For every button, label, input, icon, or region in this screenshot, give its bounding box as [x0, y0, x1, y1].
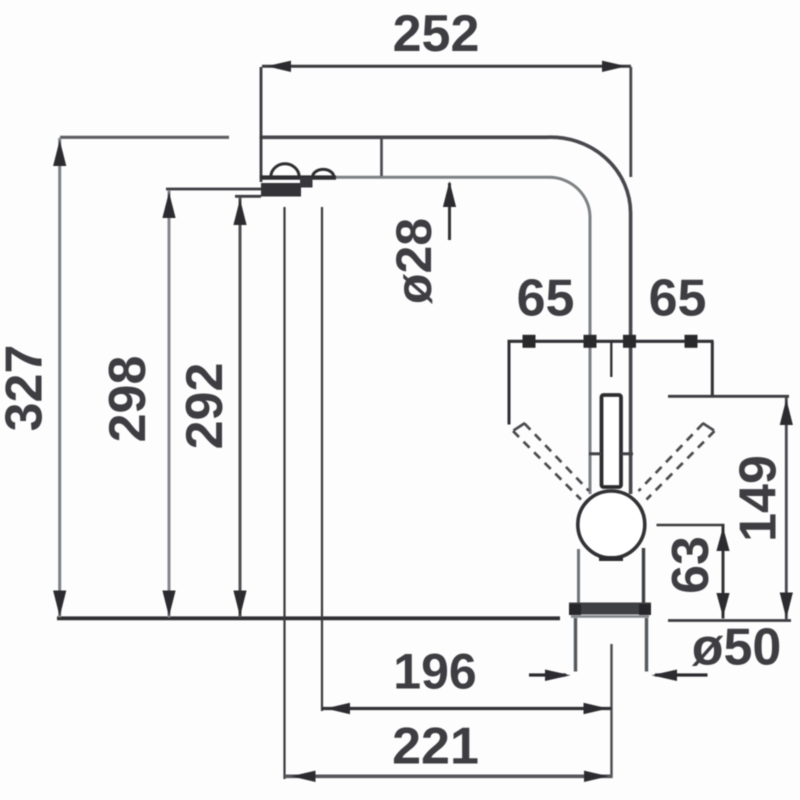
base band — [569, 603, 651, 615]
spray head big bump — [271, 164, 299, 177]
dimension 298 extension line — [166, 188, 261, 191]
dimension diameter 50 left arrow — [545, 670, 571, 682]
dimension 221 left extension line — [283, 207, 285, 779]
dimension 298 bottom arrow — [162, 591, 175, 617]
dimension 292 bottom arrow — [233, 591, 246, 617]
dimension 63 extension line — [657, 524, 725, 527]
base band dark end right — [639, 604, 651, 615]
spray head small bump — [313, 169, 334, 177]
dimension 65-65 tick 3 — [623, 335, 636, 348]
dimension 65-65 tick 2 — [584, 335, 597, 348]
dashed lever left outer line — [525, 424, 590, 492]
svg-text:292: 292 — [176, 363, 234, 450]
svg-text:196: 196 — [393, 644, 476, 700]
spout left end cap edge / 252 left extension line — [260, 67, 263, 182]
body wall left below circle — [577, 549, 580, 603]
handle lever (vertical position) — [602, 395, 622, 487]
dimension 149 line — [785, 397, 788, 620]
dimension 65-65 tick 4 — [685, 335, 698, 348]
counter line left segment — [57, 616, 560, 620]
dimension 252 right arrow — [602, 61, 627, 72]
dimension 196 left arrow — [326, 703, 351, 714]
dimension 327 bottom arrow — [53, 591, 66, 617]
svg-text:149: 149 — [730, 455, 788, 542]
shank wall right — [645, 618, 648, 672]
dimension 252 right extension line — [629, 67, 632, 177]
dimension 196 right arrow — [584, 703, 609, 714]
dimension diameter 28 arrow line — [448, 183, 451, 240]
svg-text:252: 252 — [393, 5, 480, 63]
svg-text:221: 221 — [392, 718, 479, 776]
ball joint circle — [578, 491, 645, 558]
dimension diameter 50 left leader line — [529, 673, 566, 676]
svg-text:65: 65 — [649, 270, 707, 328]
dimension 196 line — [322, 707, 611, 710]
body wall right below circle — [642, 548, 645, 603]
dashed lever right outer line — [639, 424, 704, 492]
counter line right segment — [668, 619, 791, 622]
dimension 221 line — [285, 774, 613, 778]
handle center tick — [610, 342, 612, 378]
dimension 149 top arrow — [780, 399, 793, 425]
base band dark end left — [569, 604, 581, 615]
dimension diameter 28 arrow — [443, 181, 456, 207]
spray head under-bump thick line — [261, 175, 336, 179]
svg-text:ø50: ø50 — [692, 619, 782, 677]
dimension 65-65 right corner drop — [711, 341, 714, 396]
dashed lever left inner line — [513, 431, 581, 500]
dimension diameter 50 right leader line — [655, 673, 708, 676]
spout joint line — [380, 139, 383, 176]
body joint tick left — [589, 452, 602, 455]
spout tube inner outline (bottom edge + inner curve + left wall) — [260, 177, 591, 494]
spout tube outer outline (top edge + right curve + right wall) — [260, 137, 631, 494]
dimension 63 bottom arrow — [716, 593, 729, 617]
dimension 327 line — [58, 138, 61, 618]
dimension 292 top arrow — [233, 199, 246, 225]
dashed lever right end cap — [703, 423, 715, 431]
svg-text:327: 327 — [0, 345, 54, 432]
dimension diameter 50 right arrow — [652, 670, 678, 682]
dimension 63 top arrow — [716, 527, 729, 551]
base bottom edge — [571, 615, 649, 618]
body joint tick right — [621, 452, 633, 455]
dimension 149 extension line — [668, 395, 789, 398]
dimension 65-65 left corner drop — [508, 341, 511, 424]
dimension 292 line — [239, 197, 242, 618]
dimension 65-65 tick 1 — [523, 335, 536, 348]
dashed lever left end cap — [514, 423, 526, 431]
svg-text:298: 298 — [99, 356, 157, 443]
svg-text:ø28: ø28 — [386, 218, 442, 304]
svg-text:65: 65 — [517, 270, 575, 328]
dimension 65-65 line — [508, 340, 714, 343]
shank wall left — [574, 618, 577, 672]
dimension 221 left arrow — [291, 771, 316, 782]
dimension 221 right arrow — [584, 771, 609, 782]
dimension 298 line — [168, 190, 171, 618]
dimension 149 bottom arrow — [780, 593, 793, 619]
dimension 196 left extension line — [321, 207, 323, 711]
center line of base — [610, 644, 612, 778]
dashed lever right inner line — [647, 431, 715, 500]
dimension 63 line — [722, 525, 725, 619]
dimension 252 left arrow — [267, 61, 292, 72]
dimension 298 top arrow — [162, 192, 175, 218]
svg-text:63: 63 — [662, 536, 720, 594]
dimension 327 extension line — [60, 136, 229, 139]
dimension 252 line — [262, 65, 631, 68]
dimension 292 extension line — [235, 195, 261, 198]
spray head dark outlet band — [261, 183, 301, 197]
dimension 327 top arrow — [53, 140, 66, 166]
under-circle thick line — [599, 556, 623, 561]
spray head step — [300, 178, 313, 188]
